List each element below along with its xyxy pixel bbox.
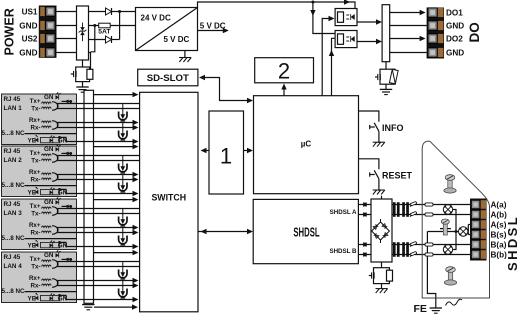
svg-text:SHDSL A: SHDSL A [330,209,357,216]
svg-text:5...8 NC: 5...8 NC [2,130,26,137]
svg-text:SWITCH: SWITCH [151,193,186,203]
svg-text:GN: GN [44,94,54,101]
svg-text:LAN 4: LAN 4 [4,263,23,270]
svg-text:GND: GND [446,49,464,58]
svg-text:SHDSL B: SHDSL B [329,248,357,255]
svg-text:LAN 1: LAN 1 [4,105,23,112]
svg-text:YE: YE [28,138,36,145]
svg-text:Tx-: Tx- [31,106,40,113]
svg-text:RESET: RESET [382,170,413,180]
svg-text:POWER: POWER [3,8,17,55]
svg-text:US1: US1 [22,8,38,17]
svg-text:GND: GND [19,22,37,31]
svg-text:INFO: INFO [382,123,404,133]
svg-text:GND: GND [446,22,464,31]
svg-text:A(a): A(a) [491,201,507,210]
svg-text:FE: FE [414,303,427,315]
svg-text:5AT: 5AT [98,29,111,36]
svg-text:SD-SLOT: SD-SLOT [147,73,189,84]
svg-text:Tx+: Tx+ [30,98,41,105]
svg-text:1: 1 [220,144,232,169]
svg-text:LAN 3: LAN 3 [4,210,23,217]
svg-text:5 V DC: 5 V DC [200,22,226,31]
svg-text:DO1: DO1 [446,9,463,18]
svg-text:GND: GND [19,49,37,58]
svg-text:2: 2 [278,59,290,84]
svg-text:Rx-: Rx- [31,125,41,132]
svg-text:Rx+: Rx+ [29,117,41,124]
svg-text:LAN 2: LAN 2 [4,157,23,164]
svg-text:DO2: DO2 [446,35,463,44]
svg-text:SHDSL: SHDSL [293,227,320,240]
svg-text:US2: US2 [22,35,38,44]
svg-text:µC: µC [301,140,312,149]
svg-text:DO: DO [467,22,482,42]
svg-text:RJ 45: RJ 45 [4,96,21,103]
svg-text:24 V DC: 24 V DC [141,14,171,23]
svg-text:SHDSL: SHDSL [505,215,518,271]
svg-text:5 V DC: 5 V DC [164,35,190,44]
